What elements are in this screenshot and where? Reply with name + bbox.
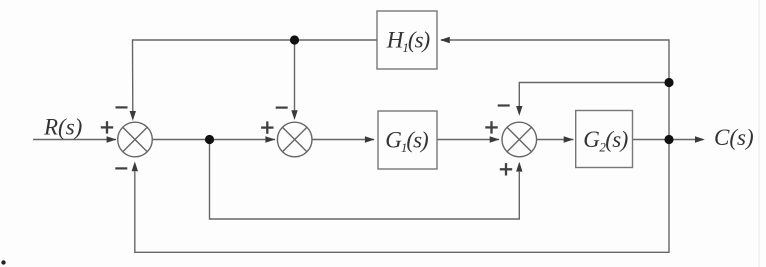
node on top line above S2 xyxy=(290,35,299,44)
wire S3 to block G2 xyxy=(537,139,574,141)
arrowhead into G1 xyxy=(365,136,375,142)
node on right vertical at middle feedback xyxy=(664,78,673,87)
sign minus at S3 top xyxy=(498,104,510,106)
wire branch from node on top line down to S2 top xyxy=(294,40,296,111)
arrowhead into S2 left xyxy=(265,136,275,142)
arrowhead to C(s) xyxy=(695,136,705,142)
wire S2 to block G1 xyxy=(312,139,374,141)
node output after G2 xyxy=(664,135,673,144)
sign minus at S1 bottom xyxy=(115,167,127,169)
stray period bottom left xyxy=(1,260,5,264)
arrowhead into G2 xyxy=(564,136,574,142)
svg-text:H1(s): H1(s) xyxy=(386,28,430,56)
node N1 after S1 xyxy=(205,135,214,144)
sign plus at S3 input xyxy=(485,121,497,133)
svg-text:R(s): R(s) xyxy=(43,115,82,140)
wire from right vertical up and left into H1 input xyxy=(441,40,669,140)
wire top feedback horizontal from H1 output left then down to S1 top xyxy=(133,40,378,112)
wire G2 to output C(s) xyxy=(633,139,704,141)
wire feedforward from node N1 down right and up to S3 bottom xyxy=(210,140,520,220)
sign plus at S3 bottom xyxy=(500,163,512,175)
arrowhead into H1 right side xyxy=(440,37,450,43)
arrowhead down into S2 top xyxy=(291,110,297,120)
block H1 xyxy=(377,11,437,69)
arrowhead up into S1 bottom xyxy=(132,162,138,172)
sign minus at S2 top xyxy=(276,106,288,108)
wire outer feedback from output node down left and up to S1 bottom xyxy=(135,140,669,253)
arrowhead down into S3 top xyxy=(516,106,522,116)
block G2 xyxy=(576,111,633,168)
wire S1 to S2 xyxy=(152,139,275,141)
summer S3 xyxy=(502,122,537,157)
sign plus at S2 input xyxy=(261,121,273,133)
svg-text:G2(s): G2(s) xyxy=(583,127,627,155)
svg-text:C(s): C(s) xyxy=(714,125,754,150)
summer S2 xyxy=(277,122,312,157)
wire input R(s) to summer S1 xyxy=(33,139,116,141)
svg-text:G1(s): G1(s) xyxy=(385,128,428,156)
summer S1 xyxy=(118,122,153,157)
block G1 xyxy=(378,111,437,169)
sign minus at S1 top xyxy=(116,106,128,108)
wire middle feedback from right node left then down to S3 top xyxy=(519,83,669,107)
arrowhead into S1 left xyxy=(107,136,117,142)
wire G1 to summer S3 xyxy=(437,139,499,141)
sign plus at S1 input xyxy=(101,121,113,133)
arrowhead down into S1 top xyxy=(130,111,136,121)
arrowhead into S3 left xyxy=(490,136,500,142)
arrowhead up into S3 bottom xyxy=(516,162,522,172)
faint page edge line right xyxy=(758,0,760,267)
